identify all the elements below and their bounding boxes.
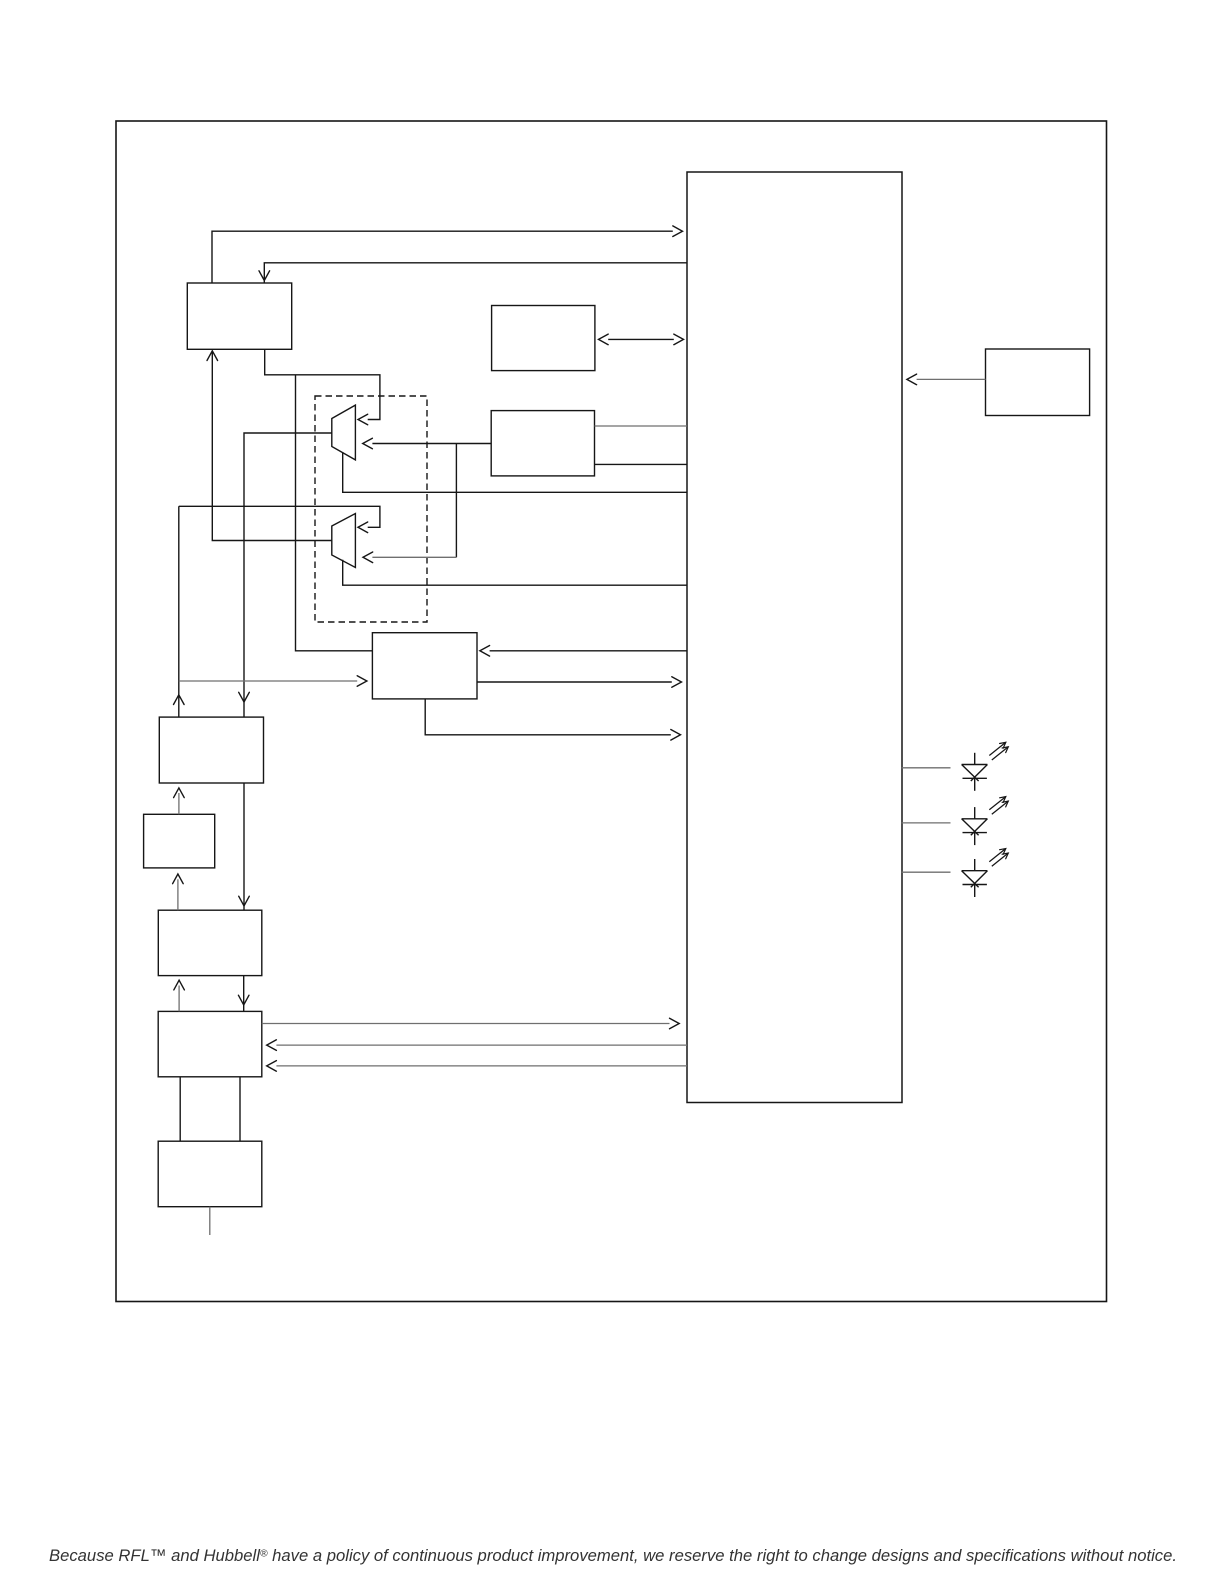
wire W1 block A1 top to U1 with arrow xyxy=(212,226,683,283)
LED D2 with wire xyxy=(902,797,1009,846)
LED D3 with wire xyxy=(902,849,1009,898)
block A3 middle xyxy=(491,411,594,476)
wire W28 block B3 to block B2 arrow up xyxy=(173,874,184,910)
block B5 left column bottom xyxy=(158,1141,262,1207)
block B3 left column xyxy=(158,910,261,975)
FPGA main block U1 xyxy=(687,172,902,1103)
wire W25 block B2 to block B1 arrow up xyxy=(174,788,185,814)
wire W14 block A3 to U1 upper line xyxy=(595,425,688,427)
wire W24 U1 to block B4 arrow left lower xyxy=(267,1061,687,1072)
svg-text:Because RFL™ and Hubbell® have: Because RFL™ and Hubbell® have a policy … xyxy=(49,1546,1177,1565)
mux M1 xyxy=(332,405,356,460)
wire W20 block C1 to U1 arrow left xyxy=(907,374,986,385)
outer border frame xyxy=(116,121,1107,1302)
wire W15 block A3 to U1 lower line xyxy=(595,463,688,465)
wire W5 mux M1 output down to block B1 with mid arrow xyxy=(239,433,332,717)
wire W8 left riser from block B1 up with mid arrow xyxy=(174,506,185,717)
block B4 left column xyxy=(158,1011,262,1076)
wire W22 block B4 to U1 arrow right xyxy=(262,1018,679,1029)
wire W2 U1 to block A1 top arrow down xyxy=(259,263,687,283)
wire W9 tee to block A4 left arrow xyxy=(179,676,367,687)
block C1 right side xyxy=(986,349,1090,416)
block B2 left column small xyxy=(144,814,215,868)
wire W16 double arrow block A2 to U1 xyxy=(599,334,684,345)
wire W23 U1 to block B4 arrow left upper xyxy=(267,1040,687,1051)
block A2 upper-middle xyxy=(492,306,595,371)
wire W30 block B3 to block B4 arrow down xyxy=(238,976,249,1012)
LED D1 with wire xyxy=(902,742,1009,791)
wire W7 left riser to mux M2 input 1 xyxy=(179,506,380,532)
wire W4 junction branch down to block A4 left xyxy=(296,375,373,651)
block A4 center xyxy=(372,633,477,699)
dashed group box around muxes xyxy=(315,396,427,622)
wire W3 block A1 bottom to mux M1 input 1 xyxy=(265,349,380,425)
wire W13 mux M2 select to U1 xyxy=(343,560,687,585)
block A1 top-left xyxy=(187,283,291,349)
wire W31 bus lines block B4 to block B5 xyxy=(180,1077,240,1141)
wire W10 block A3 output to mux M1 input 2 with branch xyxy=(363,438,492,557)
wire W27 block B1 to block B3 arrow down xyxy=(239,783,250,910)
wire W6 mux M2 output up to block A1 bottom arrow xyxy=(207,351,332,541)
wire W12 mux M1 select to U1 xyxy=(343,452,687,492)
footer disclaimer text xyxy=(49,1546,1177,1565)
wire W32 stub below block B5 xyxy=(209,1207,211,1235)
wire W11 branch to mux M2 input 2 arrow xyxy=(363,552,456,563)
mux M2 xyxy=(332,514,356,568)
wire W29 block B4 to block B3 arrow up xyxy=(174,980,185,1011)
wire W19 block A4 bottom to U1 arrow xyxy=(425,699,680,740)
wire W17 U1 to block A4 arrow left xyxy=(480,646,687,657)
block B1 left column xyxy=(159,717,263,783)
wire W18 block A4 to U1 arrow right xyxy=(477,677,682,688)
